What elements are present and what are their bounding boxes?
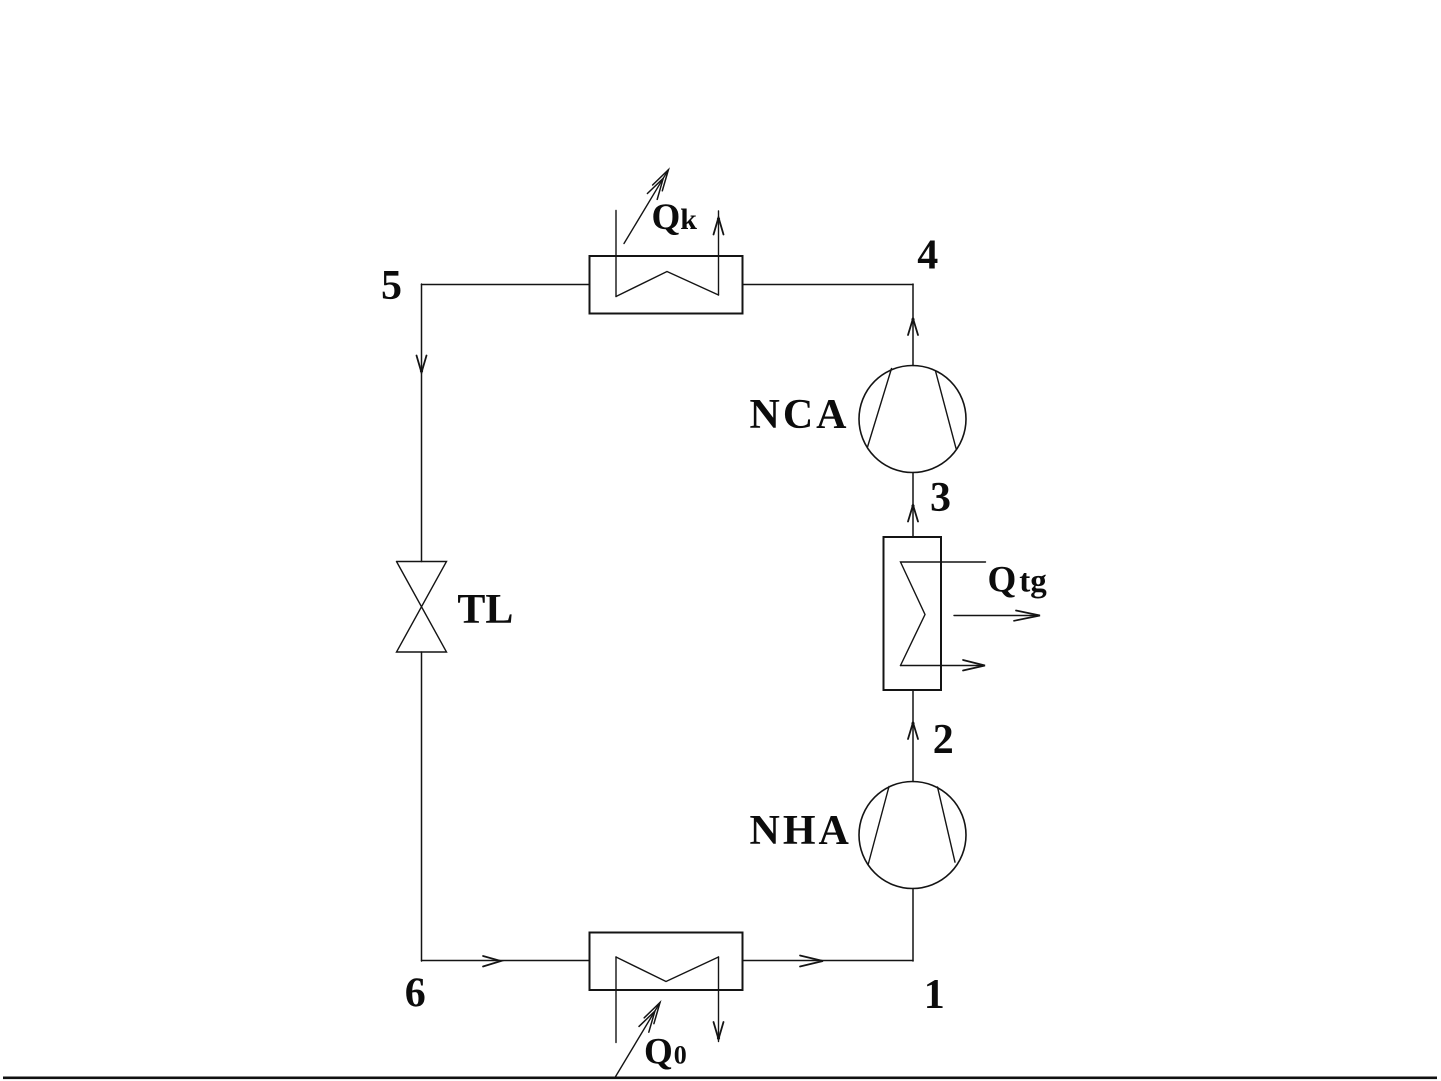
- expansion valve TL bowtie: [397, 562, 447, 653]
- svg-text:TL: TL: [457, 587, 513, 633]
- svg-text:NHA: NHA: [750, 808, 852, 854]
- arrow up node 2: [908, 723, 918, 740]
- svg-text:Qk: Qk: [652, 197, 698, 238]
- evaporator rect: [590, 933, 743, 991]
- svg-text:6: 6: [405, 971, 426, 1017]
- Qtg heat flow arrow: [954, 615, 1035, 617]
- evaporator left pipe down: [615, 957, 617, 1043]
- wire condenser to node4 (top-right horizontal): [743, 284, 914, 286]
- svg-text:Q0: Q0: [644, 1032, 687, 1073]
- evaporator V coil: [616, 957, 719, 982]
- svg-text:5: 5: [381, 263, 402, 309]
- svg-text:NCA: NCA: [750, 392, 850, 438]
- wire valve down to node6 corner: [421, 652, 423, 961]
- compressor NHA circle: [859, 782, 966, 889]
- intercooler coil zigzag: [901, 562, 986, 666]
- flow chevron right segment: [800, 956, 823, 967]
- wire node5 corner down to valve: [421, 284, 423, 562]
- evaporator right pipe down with arrow: [718, 957, 720, 1042]
- NHA internal chord right: [938, 787, 956, 862]
- condenser right pipe up with arrow: [718, 211, 720, 295]
- compressor NCA circle: [859, 366, 966, 473]
- NCA internal chord left: [868, 369, 892, 448]
- flow chevron left segment: [483, 956, 501, 967]
- svg-text:2: 2: [933, 717, 954, 763]
- arrow down on left wire: [417, 356, 427, 373]
- arrow up on wire 4: [908, 319, 918, 336]
- wire node4 corner down to compressor NCA: [912, 284, 914, 366]
- NCA internal chord right: [936, 371, 957, 448]
- intercooler heat-exchanger rect: [884, 537, 942, 690]
- bottom wire left segment (node 6 to evaporator): [422, 960, 590, 962]
- condenser peak coil: [616, 272, 719, 297]
- Qk heat arrow diagonal: [624, 170, 668, 244]
- bottom wire right segment (evaporator to node 1): [743, 960, 914, 962]
- Q0 heat arrow diagonal: [615, 1003, 660, 1078]
- svg-text:1: 1: [924, 972, 945, 1018]
- bottom page rule: [3, 1077, 1437, 1080]
- wire NHA down to node1 corner: [912, 889, 914, 962]
- arrow up node 3: [908, 505, 918, 522]
- condenser left pipe up: [615, 211, 617, 297]
- wire node5 to condenser (top-left horizontal): [422, 284, 590, 286]
- condenser rect: [590, 256, 743, 314]
- svg-text:3: 3: [930, 475, 951, 521]
- NHA internal chord left: [868, 787, 889, 865]
- wire intercooler to compressor NHA (node 2): [912, 690, 914, 782]
- wire NCA to intercooler (node 3): [912, 473, 914, 538]
- svg-text:4: 4: [917, 233, 938, 279]
- intercooler outlet line with arrow: [901, 665, 982, 667]
- svg-text:Qtg: Qtg: [988, 560, 1048, 601]
